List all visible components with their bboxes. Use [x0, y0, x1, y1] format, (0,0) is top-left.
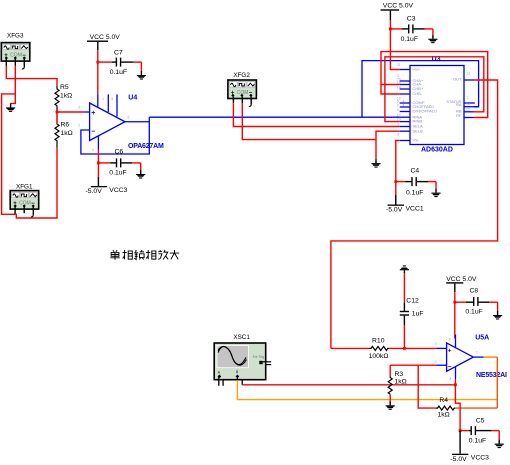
svg-text:0.1uF: 0.1uF	[401, 36, 418, 43]
svg-text:4: 4	[403, 103, 405, 107]
svg-text:VS+: VS+	[413, 67, 421, 72]
svg-text:C12: C12	[406, 298, 419, 305]
svg-text:-5.0V: -5.0V	[386, 207, 403, 214]
VCC 5.0V power symbol U4	[87, 34, 120, 50]
wire U5 output (orange)	[484, 357, 498, 408]
svg-text:DIFFOFFADJ: DIFFOFFADJ	[413, 109, 437, 114]
wire junction to op-amp in+	[57, 111, 84, 113]
capacitor C6	[98, 149, 140, 177]
wire blue branch up to RA loop	[362, 61, 479, 118]
svg-text:3: 3	[435, 342, 437, 346]
svg-text:0.1uF: 0.1uF	[110, 69, 127, 76]
svg-text:RF: RF	[456, 113, 462, 118]
wire U4 V- down	[97, 150, 99, 177]
svg-text:8: 8	[449, 337, 451, 341]
power symbol -5.0V VCC3 (U5)	[450, 431, 489, 463]
U3 pin numbers	[397, 63, 470, 136]
svg-text:VS-: VS-	[413, 138, 420, 143]
svg-text:2: 2	[435, 360, 437, 364]
svg-text:9: 9	[398, 123, 400, 127]
svg-text:2: 2	[78, 124, 80, 128]
svg-text:XFG2: XFG2	[233, 72, 250, 79]
wire VCC to U5 V+	[454, 292, 456, 338]
capacitor C12	[400, 273, 424, 348]
junction node C8	[453, 301, 456, 304]
capacitor C3	[390, 16, 433, 43]
wire RF loop to CHA- CHB-	[381, 52, 488, 118]
capacitor C8	[455, 288, 498, 316]
ground for C3	[428, 35, 437, 44]
svg-text:VCC3: VCC3	[109, 187, 127, 194]
svg-text:3: 3	[397, 103, 399, 107]
ground for C7	[137, 71, 146, 80]
junction node C5	[459, 429, 462, 432]
ground near AD630	[371, 159, 380, 168]
svg-text:1kΩ: 1kΩ	[395, 379, 407, 386]
junction node C12 R10	[403, 347, 406, 350]
svg-text:-5.0V: -5.0V	[450, 456, 467, 463]
svg-text:4: 4	[92, 148, 94, 152]
wire VS- to C4	[396, 141, 400, 182]
svg-text:5: 5	[111, 97, 113, 101]
svg-text:C6: C6	[115, 149, 124, 156]
svg-text:NE5532AI: NE5532AI	[476, 372, 507, 379]
svg-text:Ext Trig: Ext Trig	[253, 355, 265, 359]
svg-text:1uF: 1uF	[412, 311, 424, 318]
ground for C8	[493, 311, 502, 320]
op-amp U4	[78, 94, 164, 152]
junction node B- wire	[454, 383, 457, 386]
wire in- branch down to R4	[418, 365, 436, 408]
wire XSC1 B- to V- net	[242, 384, 455, 386]
svg-text:R6: R6	[61, 122, 70, 129]
wire RB loop to RINB	[385, 57, 484, 122]
svg-text:CHB-: CHB-	[413, 91, 423, 96]
wire XFG3 COM down	[11, 66, 16, 104]
svg-text:VCC 5.0V: VCC 5.0V	[90, 34, 121, 41]
svg-text:13: 13	[466, 72, 470, 76]
junction node C7	[96, 61, 99, 64]
wire VCC down to VS+	[390, 20, 399, 69]
svg-text:−: −	[448, 363, 452, 370]
svg-text:R3: R3	[395, 371, 404, 378]
svg-text:0.1uF: 0.1uF	[465, 309, 482, 316]
svg-text:U4: U4	[128, 94, 137, 101]
ground for R3	[386, 401, 395, 410]
svg-text:7: 7	[91, 97, 93, 101]
wire U4 output to RINA (long blue)	[149, 116, 399, 118]
U3 pin stubs left	[400, 70, 410, 141]
junction node C3	[389, 28, 392, 31]
ground for C5	[495, 440, 504, 449]
svg-text:C7: C7	[114, 50, 123, 57]
svg-text:4: 4	[449, 377, 451, 381]
power symbol -5.0V VCC3 (U4)	[86, 177, 128, 196]
svg-text:−: −	[91, 128, 95, 135]
ground for C4	[431, 189, 440, 198]
svg-text:RA: RA	[456, 102, 462, 107]
wire XFG3 plus to R5	[6, 66, 57, 86]
capacitor C4	[396, 168, 436, 197]
svg-text:14: 14	[466, 102, 470, 106]
svg-text:0.1uF: 0.1uF	[406, 189, 423, 196]
svg-text:1kΩ: 1kΩ	[61, 130, 73, 137]
svg-text:1kΩ: 1kΩ	[60, 93, 72, 100]
svg-text:3: 3	[78, 106, 80, 110]
U3 pin stubs right	[464, 80, 479, 118]
svg-text:1: 1	[397, 108, 399, 112]
chinese caption	[110, 250, 179, 260]
svg-text:19: 19	[397, 85, 401, 89]
junction node C6	[97, 162, 100, 165]
svg-text:XFG3: XFG3	[7, 33, 24, 40]
function generator XFG1	[10, 183, 39, 209]
svg-text:1: 1	[476, 350, 478, 354]
op-amp U5A	[435, 335, 507, 382]
svg-text:AD630AD: AD630AD	[421, 147, 453, 154]
function generator XFG3	[1, 33, 30, 62]
svg-text:C5: C5	[476, 417, 485, 424]
svg-text:100kΩ: 100kΩ	[369, 353, 389, 360]
svg-text:VCC1: VCC1	[406, 205, 424, 212]
svg-text:XSC1: XSC1	[233, 334, 250, 341]
svg-text:17: 17	[397, 113, 401, 117]
wire R4 to output (orange)	[455, 407, 497, 409]
resistor R5	[55, 84, 72, 112]
wire VCC to U4 V+	[97, 50, 99, 94]
svg-text:1: 1	[102, 97, 104, 101]
svg-text:OPA627AM: OPA627AM	[128, 143, 164, 150]
svg-text:VCC 5.0V: VCC 5.0V	[446, 276, 477, 283]
capacitor C5	[460, 417, 499, 444]
wire XFG1 plus jog to R6 bottom	[15, 148, 57, 218]
XFG2 pin leads	[233, 97, 251, 107]
wire U4 output and feedback	[81, 117, 149, 154]
VCC 5.0V power symbol (AD630)	[381, 3, 414, 21]
ground for C6	[136, 170, 145, 179]
wire XSC1 B to output net (orange)	[237, 380, 497, 400]
function generator XFG2	[228, 72, 257, 99]
wire XFG2 plus to SELA	[233, 103, 399, 127]
wire SELB to ground net	[376, 131, 400, 159]
capacitor C7	[98, 50, 142, 77]
wire U5 in- to R3 and R4	[390, 364, 436, 366]
svg-text:7: 7	[466, 96, 468, 100]
resistor R6	[55, 112, 73, 148]
svg-text:VCC3: VCC3	[471, 455, 489, 462]
wire OUT to lowpass section	[331, 80, 498, 348]
XFG1 pin leads	[15, 207, 33, 217]
resistor R10	[331, 338, 437, 361]
svg-text:U5A: U5A	[475, 335, 489, 342]
svg-text:15: 15	[466, 108, 470, 112]
junction node C4	[394, 180, 397, 183]
svg-text:0.1uF: 0.1uF	[469, 438, 486, 445]
svg-text:0.1uF: 0.1uF	[109, 169, 126, 176]
resistor R4	[436, 397, 455, 419]
svg-text:11: 11	[397, 63, 401, 67]
svg-text:OUT: OUT	[453, 77, 462, 82]
svg-text:SELB: SELB	[413, 128, 424, 133]
svg-text:C3: C3	[407, 16, 416, 23]
svg-text:C8: C8	[470, 288, 479, 295]
wire U5 V- down	[455, 380, 460, 431]
oscilloscope XSC1	[214, 334, 271, 386]
svg-text:R10: R10	[372, 338, 385, 345]
wire XFG2 COM to ground net	[242, 103, 376, 140]
svg-text:8: 8	[398, 132, 400, 136]
svg-text:XFG1: XFG1	[16, 183, 33, 190]
wire XFG3 COM branch to XFG1 plus	[2, 94, 16, 214]
svg-text:+: +	[91, 110, 95, 117]
power symbol -5.0V VCC1	[386, 182, 424, 214]
XFG3 pin leads	[6, 59, 24, 69]
svg-text:-5.0V: -5.0V	[86, 188, 103, 195]
svg-text:R5: R5	[60, 84, 69, 91]
VCC 5.0V power symbol U5	[446, 276, 477, 292]
svg-text:VCC 5.0V: VCC 5.0V	[383, 3, 414, 10]
resistor R3	[388, 365, 407, 401]
svg-text:+: +	[448, 348, 452, 355]
svg-text:6: 6	[128, 116, 130, 120]
ground below XFG3	[6, 103, 15, 112]
svg-text:1kΩ: 1kΩ	[438, 412, 450, 419]
svg-text:R4: R4	[439, 397, 448, 404]
svg-text:C4: C4	[411, 168, 420, 175]
inverted ground above C12	[400, 265, 409, 273]
junction node R5 R6	[56, 111, 59, 114]
op-amp U3 AD630AD	[410, 56, 464, 153]
